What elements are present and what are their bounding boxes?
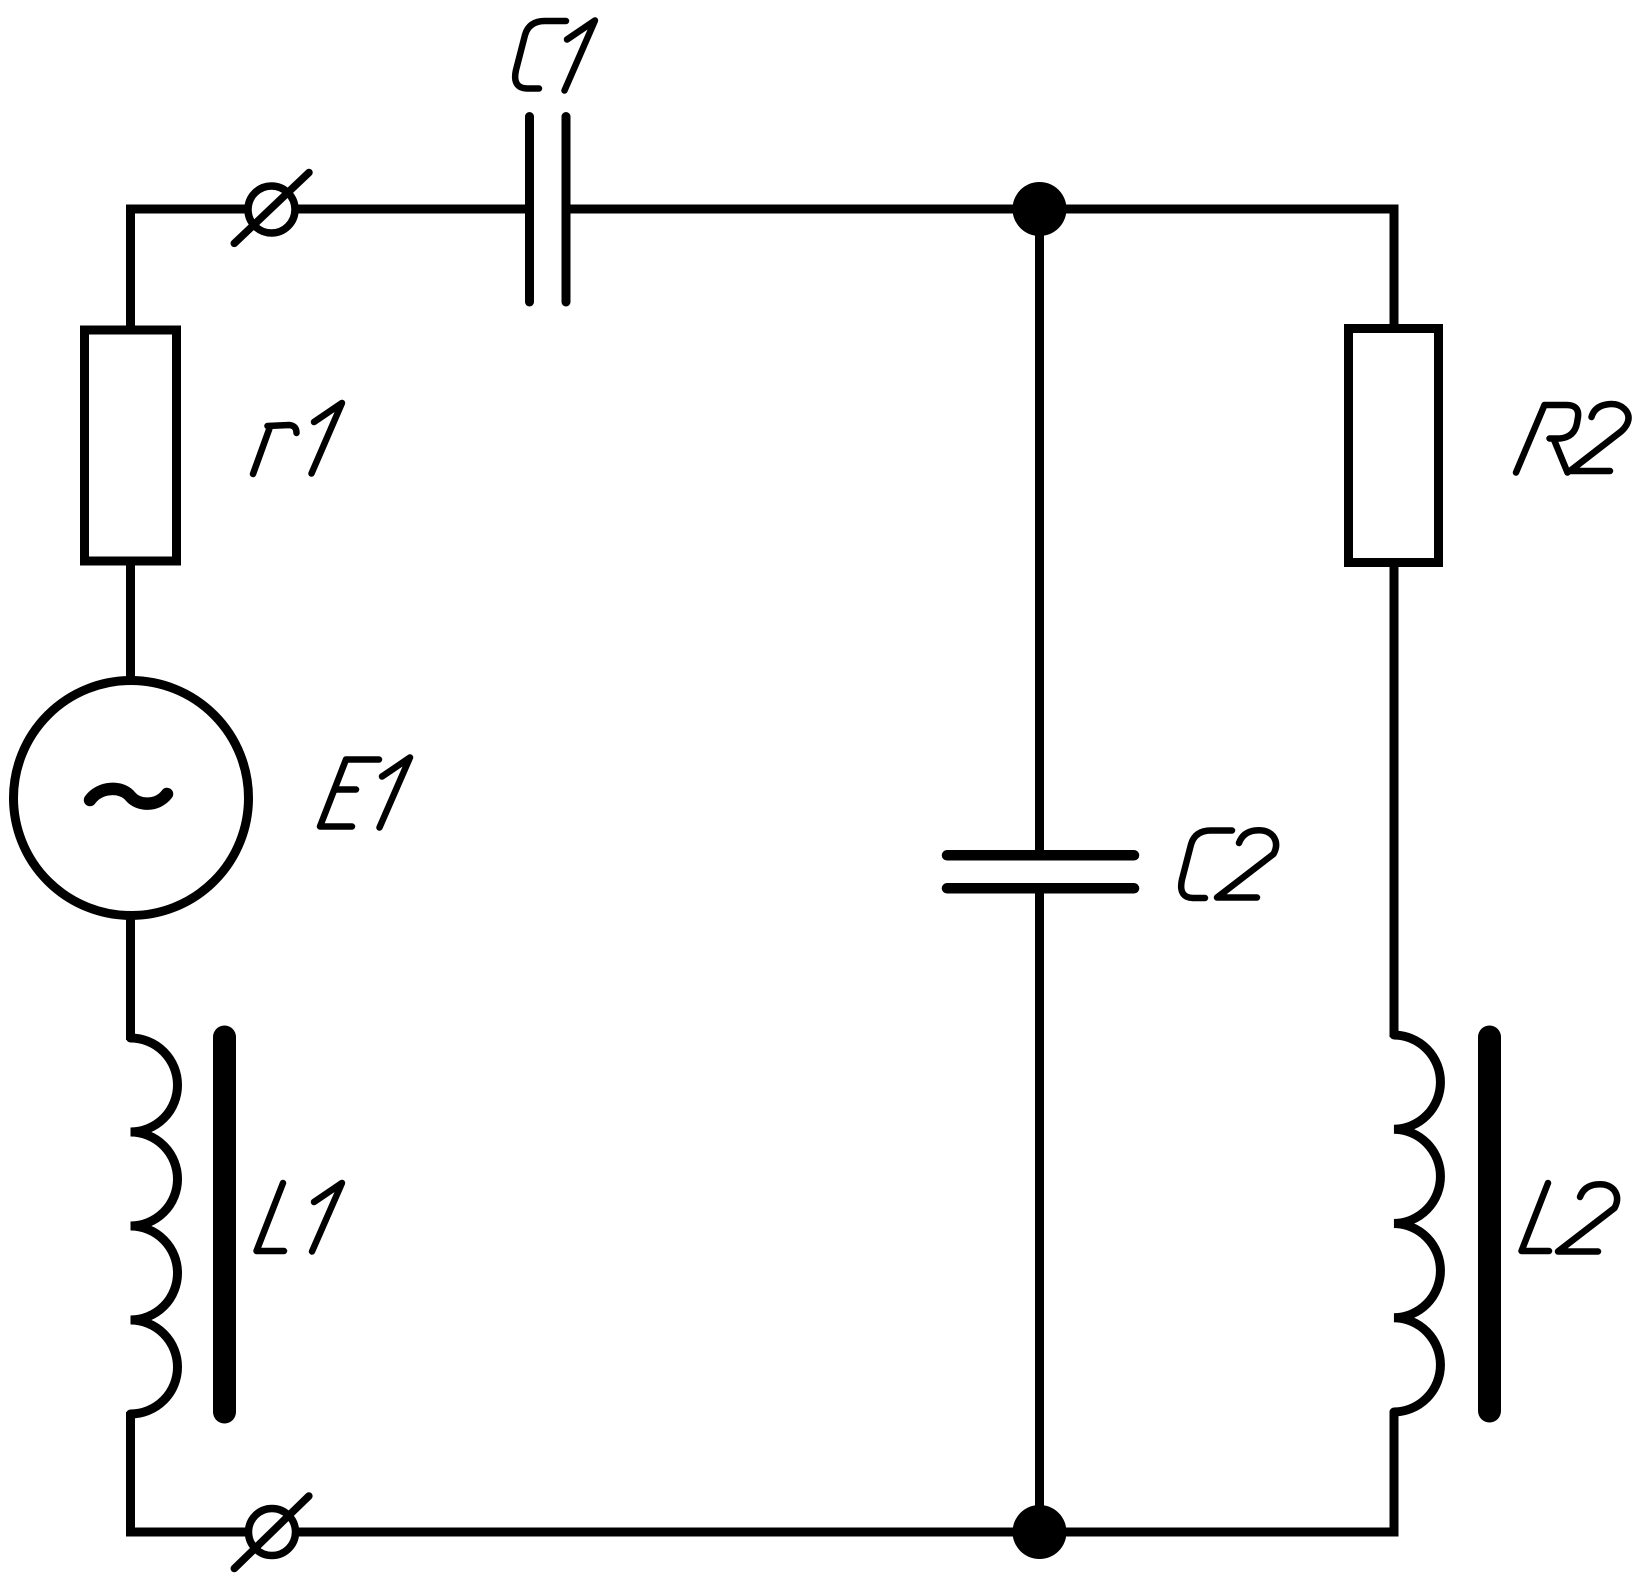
wire L1 to bottom-left corner — [131, 1412, 249, 1532]
capacitor C1 — [530, 117, 567, 303]
inductor L1 coil — [131, 1038, 178, 1414]
wire top right — [566, 209, 1394, 328]
resistor r1 — [85, 330, 177, 561]
wire E1 to L1 — [126, 913, 135, 1040]
label C2 — [1181, 830, 1276, 898]
tilde AC mark of E1 — [90, 789, 167, 804]
label L1 — [257, 1183, 343, 1252]
source E1 — [14, 681, 249, 916]
wire top-left horizontal — [126, 205, 250, 214]
label C1 — [515, 21, 595, 91]
wire top-left corner vertical — [131, 209, 249, 328]
label E1 — [320, 758, 410, 828]
label L2 — [1522, 1183, 1618, 1252]
resistor R2 — [1349, 329, 1439, 563]
inductor L2 core bar — [1478, 1037, 1501, 1411]
wire bottom-left horizontal end — [126, 1528, 132, 1537]
wire R2 to L2 — [1390, 562, 1399, 1037]
phase connector symbol top — [234, 173, 309, 244]
label R2 — [1516, 404, 1629, 472]
phase connector symbol bottom — [234, 1496, 309, 1569]
label r1 — [253, 403, 342, 474]
wire bottom middle — [296, 1528, 1042, 1537]
wire mid branch upper — [1035, 209, 1044, 853]
wire top middle — [295, 205, 527, 214]
node junction bottom — [1013, 1505, 1067, 1559]
wire bottom right — [1040, 1412, 1395, 1532]
wire r1 to E1 — [126, 561, 135, 684]
wire mid branch lower — [1035, 891, 1044, 1532]
inductor L1 core bar — [213, 1037, 236, 1412]
inductor L2 coil — [1394, 1035, 1440, 1412]
node junction top — [1013, 182, 1067, 236]
capacitor C2 — [947, 855, 1134, 888]
